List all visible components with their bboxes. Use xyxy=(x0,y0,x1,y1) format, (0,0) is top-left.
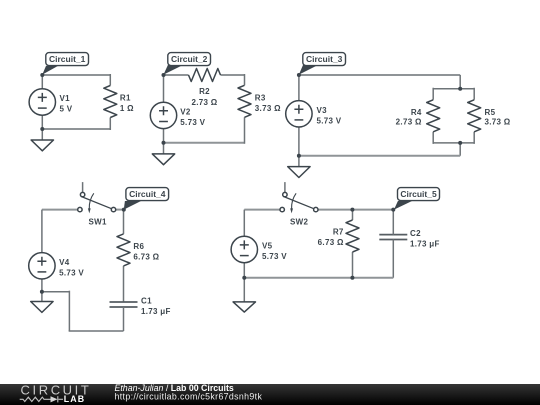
wire circuit3 right drop xyxy=(459,75,461,89)
wire V4 stems xyxy=(41,210,43,292)
callout Circuit_5 xyxy=(394,188,440,210)
svg-text:1 Ω: 1 Ω xyxy=(120,104,134,113)
resistor R5 xyxy=(468,100,481,132)
svg-text:V2: V2 xyxy=(180,108,191,117)
junction circuit4 bottom xyxy=(40,290,44,294)
callout Circuit_4 xyxy=(124,188,169,210)
ground circuit2 stem xyxy=(163,143,165,154)
wire V2 stems xyxy=(163,75,165,143)
voltage source V2 xyxy=(150,102,176,128)
svg-text:Circuit_1: Circuit_1 xyxy=(49,54,86,64)
wire circuit2 bottom xyxy=(164,142,245,144)
switch SW1 stub xyxy=(82,182,84,192)
svg-text:Circuit_4: Circuit_4 xyxy=(129,189,166,199)
wire R1 leads xyxy=(109,74,111,130)
switch SW2 xyxy=(280,192,318,213)
svg-text:R6: R6 xyxy=(133,242,144,251)
logo diode xyxy=(51,396,58,402)
svg-text:6.73 Ω: 6.73 Ω xyxy=(318,238,344,247)
resistor R2 xyxy=(189,69,221,82)
junction circuit5 R7 bottom xyxy=(350,276,354,280)
wire circuit1 bottom xyxy=(42,128,110,130)
svg-text:Circuit_5: Circuit_5 xyxy=(400,189,437,199)
svg-text:5.73 V: 5.73 V xyxy=(317,116,342,125)
svg-text:R7: R7 xyxy=(333,227,344,236)
wire R7 leads xyxy=(352,209,354,279)
wire R3 leads xyxy=(244,74,246,144)
svg-text:R3: R3 xyxy=(255,93,266,102)
wire circuit1 top xyxy=(42,74,110,76)
callout Circuit_1 xyxy=(42,53,88,75)
callout Circuit_2 xyxy=(164,53,211,75)
svg-text:SW2: SW2 xyxy=(290,217,308,226)
wire circuit5 left xyxy=(244,209,280,211)
svg-text:R5: R5 xyxy=(485,108,496,117)
wire circuit4 left xyxy=(42,209,78,211)
svg-text:V1: V1 xyxy=(60,94,71,103)
resistor R3 xyxy=(238,85,251,117)
voltage source V4 xyxy=(29,253,55,279)
svg-text:3.73 Ω: 3.73 Ω xyxy=(255,104,281,113)
node circuit4 xyxy=(122,208,126,212)
node circuit2 xyxy=(162,73,166,77)
ground circuit5 xyxy=(233,302,255,312)
svg-text:V5: V5 xyxy=(262,242,273,251)
svg-text:http://circuitlab.com/c5kr67ds: http://circuitlab.com/c5kr67dsnh9tk xyxy=(115,391,263,401)
svg-text:C1: C1 xyxy=(141,297,152,306)
capacitor C2 xyxy=(379,235,407,240)
ground circuit4 stem xyxy=(41,292,43,302)
wire circuit3 top xyxy=(299,74,460,76)
wire circuit3 rail drops xyxy=(433,88,474,156)
junction circuit5 R7 top xyxy=(350,208,354,212)
ground circuit3 stem xyxy=(298,156,300,167)
svg-text:6.73 Ω: 6.73 Ω xyxy=(133,253,159,262)
switch SW2 stub xyxy=(284,182,286,192)
svg-text:5.73 V: 5.73 V xyxy=(59,268,84,277)
ground circuit5 stem xyxy=(243,278,245,302)
junction circuit3 parallel top xyxy=(458,87,462,91)
svg-text:2.73 Ω: 2.73 Ω xyxy=(396,118,422,127)
voltage source V5 xyxy=(231,236,257,262)
wire C1 bottom lead xyxy=(123,307,125,331)
svg-text:5 V: 5 V xyxy=(60,105,73,114)
voltage source V1 xyxy=(29,89,55,115)
ground circuit4 xyxy=(31,302,53,313)
resistor R6 xyxy=(117,234,130,266)
ground circuit1 stem xyxy=(41,129,43,140)
svg-text:R1: R1 xyxy=(120,94,131,103)
wire circuit2 top xyxy=(164,74,245,76)
node circuit3 xyxy=(297,73,301,77)
svg-text:SW1: SW1 xyxy=(89,217,107,226)
junction circuit2 bottom xyxy=(162,141,166,145)
svg-text:LAB: LAB xyxy=(64,394,85,404)
wire C2 leads xyxy=(392,210,394,278)
resistor R7 xyxy=(346,220,359,252)
svg-text:V3: V3 xyxy=(317,106,328,115)
node circuit1 xyxy=(40,73,44,77)
wire V1 stems xyxy=(41,75,43,129)
svg-text:R4: R4 xyxy=(411,108,422,117)
wire circuit3 parallel rails xyxy=(433,89,474,143)
junction circuit3 bottom xyxy=(297,154,301,158)
junction circuit3 parallel bottom xyxy=(458,141,462,145)
svg-text:2.73 Ω: 2.73 Ω xyxy=(191,98,217,107)
svg-text:C2: C2 xyxy=(410,229,421,238)
voltage source V3 xyxy=(286,101,312,127)
wire circuit4 right xyxy=(116,209,124,211)
switch SW1 xyxy=(78,192,116,213)
svg-text:V4: V4 xyxy=(59,258,70,267)
logo resistor zigzag xyxy=(20,396,63,402)
svg-text:5.73 V: 5.73 V xyxy=(262,252,287,261)
wire circuit5 right xyxy=(318,209,393,211)
capacitor C1 xyxy=(110,302,138,307)
svg-text:R2: R2 xyxy=(199,87,210,96)
node circuit5 xyxy=(391,208,395,212)
ground circuit2 xyxy=(152,154,174,165)
ground circuit3 xyxy=(288,167,310,178)
svg-text:Circuit_2: Circuit_2 xyxy=(171,54,208,64)
ground circuit1 xyxy=(31,140,53,151)
junction circuit5 ground xyxy=(242,276,246,280)
resistor R1 xyxy=(104,86,117,118)
wire circuit5 bottom xyxy=(244,277,393,279)
wire circuit4 bottom route xyxy=(68,291,70,331)
wire circuit3 bottom xyxy=(299,155,460,157)
resistor R4 xyxy=(427,100,440,132)
wire V3 stems xyxy=(298,75,300,156)
svg-text:1.73 μF: 1.73 μF xyxy=(141,307,171,316)
svg-text:1.73 μF: 1.73 μF xyxy=(410,240,440,249)
wire V5 stems xyxy=(243,210,245,278)
svg-text:3.73 Ω: 3.73 Ω xyxy=(485,118,511,127)
svg-text:Circuit_3: Circuit_3 xyxy=(306,54,343,64)
junction circuit1 bottom xyxy=(40,127,44,131)
svg-text:5.73 V: 5.73 V xyxy=(180,118,205,127)
callout Circuit_3 xyxy=(299,53,346,75)
wire R6 leads xyxy=(123,210,125,302)
